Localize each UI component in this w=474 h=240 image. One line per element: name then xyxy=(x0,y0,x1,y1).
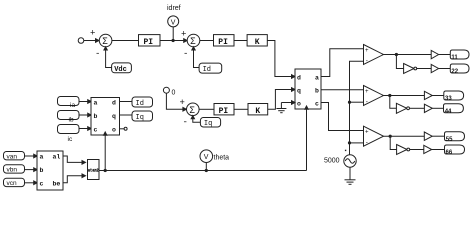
comparator CMP1 xyxy=(364,45,384,65)
voltmeter V(idref) xyxy=(168,16,179,27)
gating block G5 xyxy=(445,132,465,141)
wire (K output to q pin) xyxy=(268,90,295,110)
svg-text:al: al xyxy=(53,154,61,161)
wire xyxy=(25,169,37,171)
label Iq (output) xyxy=(132,111,153,121)
wire (CMP2 out to NOT2) xyxy=(390,96,397,109)
svg-text:-: - xyxy=(183,49,188,59)
wire xyxy=(432,95,444,97)
svg-text:vbn: vbn xyxy=(7,167,18,174)
wire xyxy=(160,40,187,42)
block PI (q-axis) xyxy=(214,104,234,115)
wire xyxy=(112,40,139,42)
wire (U5 q out) xyxy=(120,114,133,116)
wire (U3 minus input from Iq) xyxy=(193,116,201,123)
wire xyxy=(432,135,444,137)
svg-text:+: + xyxy=(180,98,185,108)
svg-text:Id: Id xyxy=(136,100,144,108)
svg-text:Vdc: Vdc xyxy=(114,66,127,74)
gating block G1 xyxy=(450,50,469,59)
svg-text:o: o xyxy=(297,101,301,108)
node IN1 (input terminal circle, chain 1) xyxy=(78,38,84,44)
block K (d-axis gain) xyxy=(247,35,267,46)
label ib xyxy=(58,111,80,120)
svg-text:a: a xyxy=(315,75,319,82)
gating block G2 xyxy=(450,64,469,73)
svg-text:V: V xyxy=(171,19,176,26)
wire xyxy=(439,54,451,56)
svg-text:Σ: Σ xyxy=(189,105,195,115)
wire xyxy=(410,107,425,109)
node CMP3 out junction xyxy=(389,135,392,138)
wire xyxy=(432,149,445,151)
block K (q-axis gain) xyxy=(248,104,268,115)
svg-text:+: + xyxy=(90,29,95,39)
wire (U5 d out) xyxy=(120,101,133,103)
wire xyxy=(84,40,99,42)
node idref junction xyxy=(172,39,175,42)
label vbn xyxy=(4,165,25,173)
wire xyxy=(79,128,91,130)
inverter NOT1 xyxy=(404,64,414,74)
ground (carrier source) xyxy=(349,167,351,180)
wire xyxy=(439,68,451,70)
summer U3 xyxy=(187,103,200,116)
inverter NOT2 xyxy=(396,103,406,113)
svg-text:PI: PI xyxy=(219,107,229,116)
buffer A3 (on-off controller) xyxy=(424,132,432,140)
node theta junction 1 xyxy=(104,169,107,172)
svg-text:55: 55 xyxy=(446,137,453,143)
ground (at U4 o pin) xyxy=(281,102,294,104)
svg-text:5000: 5000 xyxy=(324,158,340,165)
svg-text:q: q xyxy=(112,113,116,120)
svg-text:0: 0 xyxy=(172,90,176,97)
wire (CMP3 out to NOT3) xyxy=(390,136,396,149)
svg-text:be: be xyxy=(53,180,61,187)
svg-text:a: a xyxy=(94,99,98,106)
svg-text:van: van xyxy=(7,153,18,160)
svg-text:atan2: atan2 xyxy=(88,168,99,174)
node carrier junction CMP2 xyxy=(348,101,351,104)
inverter NOT3 xyxy=(397,145,407,155)
wire (CMP3 out) xyxy=(384,135,425,137)
svg-text:22: 22 xyxy=(451,69,458,75)
label Iq (feedback) xyxy=(200,118,220,128)
block PI (d-axis outer) xyxy=(139,35,161,46)
label Id (feedback) xyxy=(199,63,222,73)
svg-text:V: V xyxy=(204,154,209,161)
svg-text:Id: Id xyxy=(203,66,211,74)
wire xyxy=(410,149,424,151)
wire (CMP1 out to NOT1) xyxy=(396,55,403,69)
svg-text:ib: ib xyxy=(69,117,74,124)
wire (atan2 output) xyxy=(99,170,105,172)
wire xyxy=(200,40,214,42)
wire (U1 minus input from Vdc) xyxy=(106,47,112,68)
wire xyxy=(234,108,248,110)
wire (U2 minus input from Id) xyxy=(194,47,200,68)
wire (V idref to junction) xyxy=(172,27,174,41)
node o (U5 o unconnected terminal) xyxy=(120,128,125,130)
comparator CMP3 xyxy=(364,126,384,146)
wire (U4 theta pin down to theta bus) xyxy=(306,109,308,171)
wire (a to comparator 1 +) xyxy=(321,49,363,77)
svg-text:-: - xyxy=(365,99,369,106)
svg-text:+: + xyxy=(181,30,186,40)
buffer B3 (on-off controller) xyxy=(424,145,432,153)
source VTRI carrier (triangular/sine source, 5000 Hz) xyxy=(344,155,356,167)
node CMP2 out junction xyxy=(388,94,391,97)
svg-text:-: - xyxy=(95,49,100,59)
label ic xyxy=(58,125,80,134)
comparator CMP2 xyxy=(364,86,384,106)
svg-text:K: K xyxy=(255,107,260,116)
svg-text:Σ: Σ xyxy=(190,36,196,46)
wire xyxy=(79,114,91,116)
svg-text:+: + xyxy=(365,129,369,136)
svg-text:b: b xyxy=(40,167,44,174)
node 0 (zero reference terminal, chain 2) xyxy=(163,87,169,93)
svg-text:o: o xyxy=(112,126,116,133)
svg-text:33: 33 xyxy=(445,96,452,102)
node carrier junction CMP3 xyxy=(348,141,351,144)
svg-text:Iq: Iq xyxy=(136,114,144,122)
gating block G4 xyxy=(444,104,464,113)
gating block G3 xyxy=(444,91,464,100)
wire (carrier to CMP3 -) xyxy=(350,142,364,144)
label Vdc xyxy=(112,63,132,73)
summer U2 xyxy=(187,34,200,47)
wire xyxy=(234,40,247,42)
label van xyxy=(4,152,25,160)
svg-text:c: c xyxy=(315,101,319,108)
summer U1 xyxy=(99,34,112,47)
wire (U5 theta pin to theta bus) xyxy=(104,135,106,171)
svg-text:PI: PI xyxy=(144,38,154,47)
block U5 abc-to-dq0 transform xyxy=(91,98,120,136)
buffer A2 (on-off controller) xyxy=(424,91,432,99)
svg-text:K: K xyxy=(255,38,260,47)
svg-text:11: 11 xyxy=(451,55,458,61)
block U4 dq0-to-abc transform xyxy=(295,69,321,109)
block PI (d-axis inner) xyxy=(214,35,235,46)
label vcn xyxy=(4,178,25,186)
svg-text:ia: ia xyxy=(70,102,75,109)
wire (theta bus) xyxy=(105,170,306,172)
wire (K output to d pin) xyxy=(267,41,295,77)
svg-text:ic: ic xyxy=(68,136,73,143)
wire xyxy=(25,155,37,157)
wire xyxy=(25,182,37,184)
wire (0 to U3 plus) xyxy=(166,93,185,109)
gating block G6 xyxy=(445,145,465,154)
buffer B2 (on-off controller) xyxy=(424,104,432,112)
wire (b to comparator 2 +) xyxy=(321,89,363,91)
wire xyxy=(79,101,91,103)
wire (c to comparator 3 +) xyxy=(321,103,363,131)
svg-text:d: d xyxy=(112,99,116,106)
block U7 atan2 xyxy=(88,160,100,180)
buffer B1 (on-off controller) xyxy=(431,64,438,72)
wire (CMP2 out) xyxy=(384,95,425,97)
svg-text:44: 44 xyxy=(445,109,452,115)
svg-text:d: d xyxy=(297,75,301,82)
buffer A1 (on-off controller) xyxy=(431,50,438,58)
svg-text:idref: idref xyxy=(167,5,181,12)
label Id (output) xyxy=(132,97,153,107)
node CMP1 out junction xyxy=(395,53,398,56)
svg-text:-: - xyxy=(365,139,369,146)
svg-text:b: b xyxy=(315,88,319,95)
svg-text:c: c xyxy=(94,126,98,133)
svg-text:PI: PI xyxy=(218,38,228,47)
svg-text:-: - xyxy=(365,58,369,65)
svg-text:c: c xyxy=(40,180,44,187)
svg-text:-: - xyxy=(183,118,188,128)
label ia xyxy=(58,97,80,106)
wire xyxy=(417,68,431,70)
svg-text:vcn: vcn xyxy=(7,180,18,187)
wire (be to atan2) xyxy=(63,176,84,183)
svg-text:Iq: Iq xyxy=(204,120,212,128)
wire (CMP1 out) xyxy=(384,54,432,56)
svg-text:+: + xyxy=(365,47,369,54)
node theta junction 2 xyxy=(205,169,208,172)
svg-text:Σ: Σ xyxy=(102,36,108,46)
wire xyxy=(432,107,443,109)
svg-text:theta: theta xyxy=(214,155,230,162)
voltmeter V(theta) xyxy=(205,163,207,171)
block U6 abc-to-alphabeta transform xyxy=(37,151,63,190)
svg-text:q: q xyxy=(297,88,301,95)
wire (carrier bus) xyxy=(350,61,364,155)
wire (carrier to CMP2 -) xyxy=(350,101,364,103)
svg-text:b: b xyxy=(94,113,98,120)
svg-text:66: 66 xyxy=(446,150,453,156)
svg-text:a: a xyxy=(40,154,44,161)
wire xyxy=(199,108,214,110)
wire (al to atan2) xyxy=(63,156,84,162)
svg-text:+: + xyxy=(365,88,369,95)
